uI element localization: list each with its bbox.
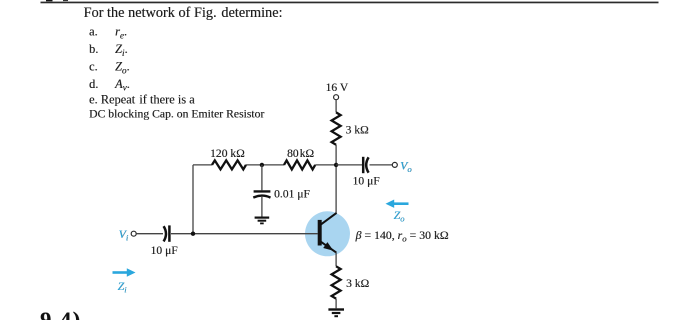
transistor base bar	[318, 220, 322, 246]
svg-text:Vo: Vo	[400, 159, 412, 174]
capacitor 10uF output left plate	[362, 157, 365, 173]
transistor highlight circle	[305, 211, 350, 256]
ground (0.01uF)	[255, 218, 270, 224]
wire 0.01 cap from bias node	[261, 165, 263, 190]
cut-off glyph mark 2	[63, 0, 68, 1]
top rule	[41, 2, 659, 4]
capacitor 10uF input right plate	[168, 225, 171, 241]
wire cap to output terminal	[370, 164, 393, 166]
ground (emitter)	[328, 310, 344, 317]
wire 80k to collector node	[315, 164, 336, 166]
Zo arrow	[386, 200, 409, 208]
cut-off glyph mark 1	[46, 0, 53, 1]
svg-text:16 V: 16 V	[326, 81, 349, 94]
svg-text:0.01 μF: 0.01 μF	[274, 188, 310, 201]
wire collector node to output cap	[336, 164, 362, 166]
wire RC to collector node	[335, 145, 337, 214]
Zi arrow	[113, 268, 136, 276]
transistor emitter stroke	[321, 242, 337, 253]
wire cap to ground	[261, 197, 263, 217]
wire bias left to 120k	[193, 164, 212, 166]
svg-text:3 kΩ: 3 kΩ	[346, 277, 369, 290]
svg-text:9.4): 9.4)	[40, 307, 82, 320]
capacitor 0.01uF top plate	[254, 190, 271, 192]
svg-text:Zo: Zo	[394, 208, 406, 223]
svg-text:b.Zi.: b.Zi.	[89, 42, 128, 58]
svg-text:DC blocking Cap. on Emiter Res: DC blocking Cap. on Emiter Resistor	[89, 108, 264, 121]
svg-text:120 kΩ: 120 kΩ	[210, 147, 245, 160]
wire cap to base	[171, 233, 318, 235]
transistor emitter arrow	[323, 242, 333, 251]
bias line left vertical	[192, 165, 194, 234]
svg-text:β = 140, ro = 30 kΩ: β = 140, ro = 30 kΩ	[355, 228, 449, 244]
svg-text:10 μF: 10 μF	[353, 175, 381, 188]
svg-text:a.re.: a.re.	[89, 25, 127, 41]
wire supply to RC	[335, 100, 337, 113]
resistor 120k zigzag	[212, 160, 246, 169]
svg-text:e. Repeat if there is a: e. Repeat if there is a	[89, 92, 195, 106]
wire input terminal to cap	[136, 233, 163, 235]
wire RE to ground	[335, 299, 337, 309]
svg-text:Zi: Zi	[118, 279, 128, 294]
transistor collector stroke	[321, 213, 337, 225]
wire emitter to RE	[335, 252, 337, 266]
svg-text:Vi: Vi	[119, 227, 129, 242]
capacitor 0.01uF bottom plate curved	[253, 196, 270, 198]
collector node junction dot	[334, 163, 338, 167]
resistor 80k zigzag	[284, 160, 315, 169]
output terminal	[392, 162, 397, 167]
capacitor 10uF input left plate curved	[164, 226, 166, 241]
svg-text:For the network of Fig. deter: For the network of Fig. determine:	[84, 5, 283, 21]
svg-text:10 μF: 10 μF	[151, 244, 179, 257]
input terminal	[131, 231, 136, 236]
svg-text:80kΩ: 80kΩ	[287, 147, 314, 160]
capacitor 10uF output right plate curved	[366, 157, 368, 172]
resistor RE 3k zigzag	[332, 266, 341, 298]
svg-text:c.Zo.: c.Zo.	[89, 60, 130, 76]
wire 120k to node	[246, 164, 284, 166]
supply terminal	[334, 95, 339, 100]
svg-text:d.Av.: d.Av.	[89, 77, 130, 93]
node junction dot bias	[260, 163, 264, 167]
resistor RC 3k zigzag	[332, 112, 341, 144]
svg-text:3 kΩ: 3 kΩ	[346, 124, 369, 137]
input junction dot	[191, 232, 195, 236]
